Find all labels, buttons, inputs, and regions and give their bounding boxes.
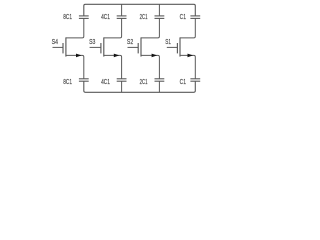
- svg-text:2C1: 2C1: [140, 14, 148, 21]
- wire: S3 source down to bottom cap 4C1: [104, 55, 122, 78]
- S1 source arrowhead: [188, 54, 194, 58]
- svg-text:8C1: 8C1: [63, 79, 72, 86]
- transistor S1 (switch): [167, 18, 196, 78]
- svg-text:S2: S2: [127, 39, 133, 46]
- capacitor 4C1 (bottom row): [117, 79, 127, 81]
- S3 gate bar: [100, 43, 102, 53]
- S4 channel bar: [65, 37, 67, 56]
- svg-text:C1: C1: [180, 14, 187, 21]
- capacitor 8C1 (bottom row): [79, 79, 89, 81]
- svg-text:C1: C1: [180, 79, 187, 86]
- capacitor 2C1 (bottom row): [155, 79, 165, 81]
- S2 gate bar: [137, 43, 139, 53]
- capacitor 8C1 (top row): [79, 16, 89, 19]
- wire: S1 drain up to top cap C1: [180, 18, 195, 38]
- wire: S3 gate lead stub: [90, 46, 101, 48]
- wire: S2 drain up to top cap 2C1: [141, 18, 159, 38]
- transistor S4 (switch): [53, 18, 84, 78]
- wire: S3 drain up to top cap 4C1: [104, 18, 122, 38]
- svg-text:S1: S1: [165, 39, 171, 46]
- svg-text:2C1: 2C1: [140, 79, 148, 86]
- svg-text:8C1: 8C1: [63, 14, 72, 21]
- svg-text:S3: S3: [89, 39, 95, 46]
- wire: S4 source down to bottom cap 8C1: [66, 55, 84, 78]
- S2 source arrowhead: [152, 54, 158, 58]
- wire: S2 gate lead stub: [128, 46, 139, 48]
- capacitor C1 (bottom row): [190, 79, 200, 81]
- S1 gate bar: [176, 43, 178, 53]
- transistor S3 (switch): [90, 18, 122, 78]
- S2 channel bar: [140, 37, 142, 56]
- wire: 4C1 top lead tee from rail: [121, 4, 123, 16]
- transistor S2 (switch): [128, 18, 160, 78]
- S4 source arrowhead: [76, 54, 82, 58]
- wire: S1 source down to bottom cap C1: [180, 55, 195, 78]
- svg-text:S4: S4: [52, 39, 59, 46]
- svg-text:4C1: 4C1: [101, 14, 110, 21]
- S1 channel bar: [179, 37, 181, 56]
- wire: 4C1 bottom lead tee to rail: [121, 81, 123, 92]
- wire: S4 drain up to top cap 8C1: [66, 18, 84, 38]
- wire: bottom rail joining bottom plates of 8C1,4C1,2C1,C1: [84, 81, 196, 92]
- svg-text:4C1: 4C1: [101, 79, 110, 86]
- S3 channel bar: [103, 37, 105, 56]
- capacitor C1 (top row): [190, 16, 200, 19]
- S4 gate bar: [62, 43, 64, 53]
- capacitor 4C1 (top row): [117, 16, 127, 19]
- wire: S4 gate lead stub: [53, 46, 64, 48]
- wire: S2 source down to bottom cap 2C1: [141, 55, 159, 78]
- capacitor 2C1 (top row): [155, 16, 165, 19]
- wire: S1 gate lead stub: [167, 46, 178, 48]
- S3 source arrowhead: [114, 54, 120, 58]
- wire: 2C1 bottom lead tee to rail: [158, 81, 160, 92]
- wire: 2C1 top lead tee from rail: [158, 4, 160, 16]
- wire: top rail joining top plates of 8C1,4C1,2C1,C1: [84, 4, 196, 16]
